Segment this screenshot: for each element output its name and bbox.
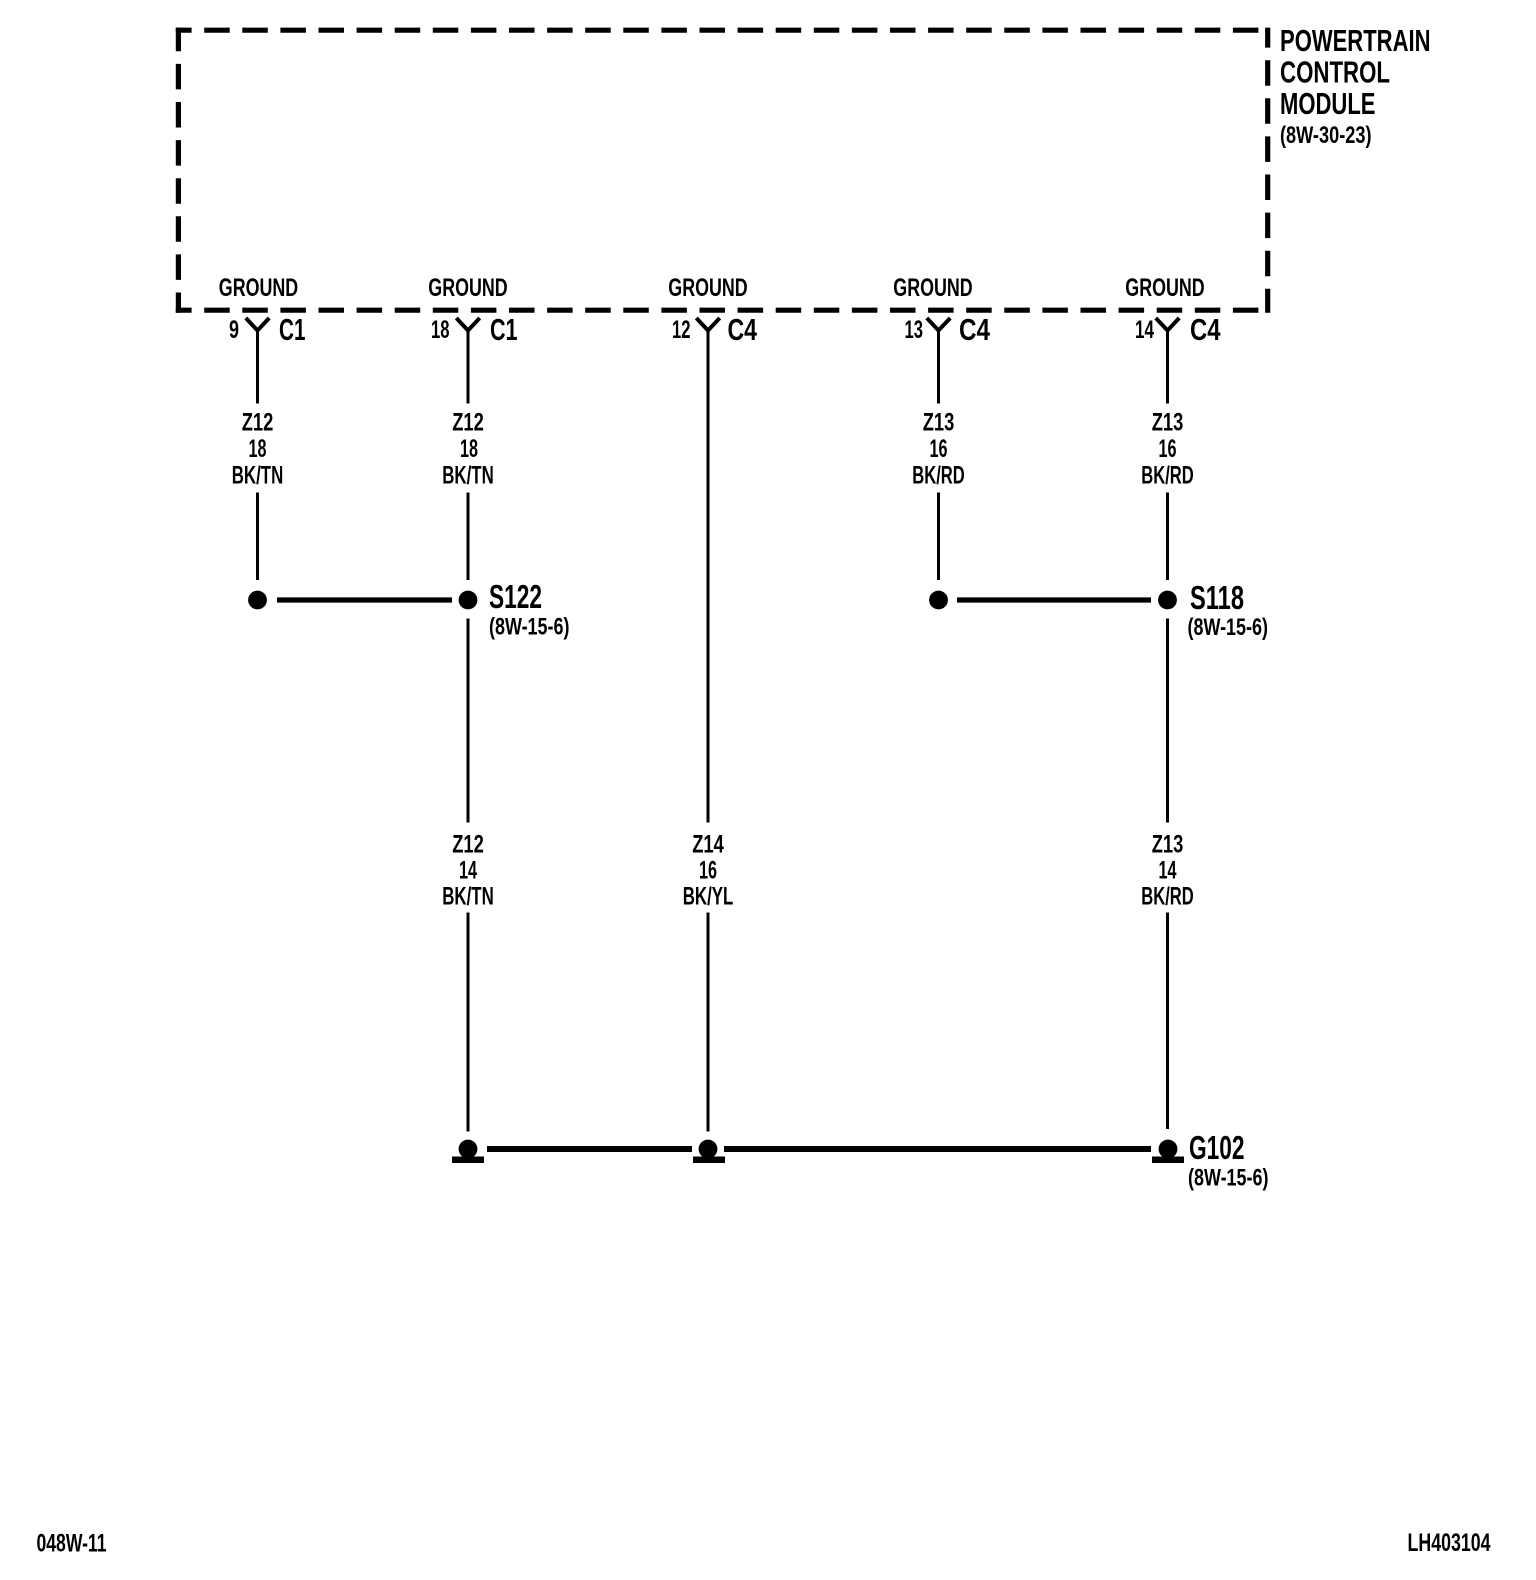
connector pin 12 C4 bbox=[672, 312, 758, 347]
svg-text:GROUND: GROUND bbox=[428, 274, 507, 302]
svg-text:12: 12 bbox=[672, 316, 691, 344]
connector pin 13 C4 bbox=[905, 312, 991, 347]
svg-text:14: 14 bbox=[1159, 857, 1177, 885]
svg-text:BK/RD: BK/RD bbox=[912, 462, 965, 490]
svg-text:BK/TN: BK/TN bbox=[442, 462, 494, 490]
wire label Z13 16 BK/RD (wire 4) bbox=[912, 409, 965, 490]
svg-text:14: 14 bbox=[459, 857, 477, 885]
wire 2 lower segment to ground bbox=[467, 913, 470, 1132]
svg-text:LH403104: LH403104 bbox=[1408, 1529, 1491, 1557]
svg-text:16: 16 bbox=[1159, 435, 1177, 463]
wire label Z13 16 BK/RD (wire 5) bbox=[1141, 409, 1194, 490]
PCM module dashed box bottom edge bbox=[176, 308, 1271, 313]
splice S122 horizontal wire bbox=[277, 597, 452, 602]
svg-text:(8W-15-6): (8W-15-6) bbox=[489, 614, 570, 641]
svg-text:(8W-30-23): (8W-30-23) bbox=[1280, 122, 1372, 149]
svg-text:C4: C4 bbox=[728, 312, 758, 347]
splice S122 right junction dot bbox=[459, 591, 478, 610]
wire pin18 lower segment to splice bbox=[467, 493, 470, 581]
connector pin 18 C1 bbox=[431, 312, 518, 347]
svg-text:Z13: Z13 bbox=[923, 409, 955, 437]
wire pin9 upper segment bbox=[256, 329, 259, 404]
svg-text:048W-11: 048W-11 bbox=[37, 1530, 107, 1558]
PCM module dashed box left edge bbox=[176, 28, 181, 313]
wire pin14 lower segment to splice bbox=[1166, 493, 1169, 581]
splice S118 horizontal wire bbox=[957, 597, 1151, 602]
svg-text:GROUND: GROUND bbox=[668, 274, 747, 302]
PCM label POWERTRAIN CONTROL MODULE (8W-30-23) bbox=[1280, 23, 1431, 149]
wire 3 lower segment to ground bbox=[707, 913, 710, 1132]
svg-text:MODULE: MODULE bbox=[1280, 86, 1376, 121]
wire below S122 to lower label bbox=[467, 619, 470, 823]
svg-text:13: 13 bbox=[905, 316, 924, 344]
svg-text:Z13: Z13 bbox=[1152, 409, 1184, 437]
svg-text:CONTROL: CONTROL bbox=[1280, 55, 1390, 90]
svg-text:C4: C4 bbox=[1190, 312, 1221, 347]
splice S118 right junction dot bbox=[1158, 591, 1177, 610]
ground terminal bar G102 bbox=[1152, 1157, 1184, 1164]
wire below S118 to lower label bbox=[1166, 619, 1169, 823]
svg-text:GROUND: GROUND bbox=[893, 274, 972, 302]
svg-text:16: 16 bbox=[930, 435, 948, 463]
svg-text:GROUND: GROUND bbox=[1125, 274, 1204, 302]
svg-text:BK/TN: BK/TN bbox=[232, 462, 284, 490]
wire pin12 long segment bbox=[707, 329, 710, 823]
PCM module dashed box right edge bbox=[1265, 28, 1270, 313]
splice S122 left junction dot bbox=[248, 591, 267, 610]
svg-text:BK/YL: BK/YL bbox=[683, 883, 734, 911]
svg-text:G102: G102 bbox=[1189, 1129, 1245, 1166]
wire label Z12 18 BK/TN (wire 1) bbox=[232, 409, 284, 490]
svg-text:Z12: Z12 bbox=[452, 831, 484, 859]
svg-text:S118: S118 bbox=[1190, 579, 1244, 616]
ground terminal bar wire 3 bbox=[693, 1157, 725, 1164]
svg-text:C1: C1 bbox=[279, 312, 306, 347]
ground junction dot wire 2 bbox=[459, 1140, 478, 1159]
wire label Z12 14 BK/TN (lower wire 2) bbox=[442, 831, 494, 911]
PCM module dashed box top edge bbox=[176, 28, 1271, 33]
ground junction dot wire 3 bbox=[699, 1140, 718, 1159]
wire pin18 upper segment bbox=[467, 329, 470, 404]
splice S118 label bbox=[1188, 579, 1269, 641]
svg-text:C4: C4 bbox=[959, 312, 991, 347]
svg-text:14: 14 bbox=[1135, 316, 1154, 344]
splice S122 label bbox=[489, 578, 570, 641]
svg-text:S122: S122 bbox=[489, 578, 542, 615]
svg-text:Z12: Z12 bbox=[452, 409, 484, 437]
ground G102 label bbox=[1188, 1129, 1269, 1192]
ground bus wire left segment bbox=[487, 1146, 692, 1152]
svg-text:18: 18 bbox=[431, 316, 450, 344]
ground terminal bar wire 2 bbox=[452, 1157, 484, 1164]
svg-text:9: 9 bbox=[229, 316, 239, 344]
svg-text:BK/RD: BK/RD bbox=[1141, 883, 1194, 911]
svg-text:18: 18 bbox=[460, 435, 478, 463]
wire label Z13 14 BK/RD (lower wire 5) bbox=[1141, 831, 1194, 911]
wire label Z14 16 BK/YL (lower wire 3) bbox=[683, 831, 734, 911]
wire pin13 lower segment to splice bbox=[937, 493, 940, 581]
wire pin13 upper segment bbox=[937, 329, 940, 404]
svg-text:BK/RD: BK/RD bbox=[1141, 462, 1194, 490]
svg-text:Z12: Z12 bbox=[242, 409, 274, 437]
ground junction dot G102 bbox=[1159, 1140, 1178, 1159]
splice S118 left junction dot bbox=[929, 591, 948, 610]
wire label Z12 18 BK/TN (wire 2) bbox=[442, 409, 494, 490]
ground bus wire right segment bbox=[724, 1146, 1151, 1152]
svg-text:POWERTRAIN: POWERTRAIN bbox=[1280, 23, 1431, 58]
wire 5 lower segment to ground bbox=[1166, 913, 1169, 1130]
wire pin14 upper segment bbox=[1166, 329, 1169, 404]
svg-text:(8W-15-6): (8W-15-6) bbox=[1188, 614, 1269, 641]
svg-text:16: 16 bbox=[699, 857, 717, 885]
connector pin 9 C1 bbox=[229, 312, 306, 347]
svg-text:GROUND: GROUND bbox=[219, 274, 298, 302]
svg-text:(8W-15-6): (8W-15-6) bbox=[1188, 1165, 1269, 1192]
svg-text:C1: C1 bbox=[490, 312, 518, 347]
svg-text:18: 18 bbox=[249, 435, 267, 463]
connector pin 14 C4 bbox=[1135, 312, 1221, 347]
wire pin9 lower segment to splice bbox=[256, 493, 259, 581]
svg-text:BK/TN: BK/TN bbox=[442, 883, 494, 911]
svg-text:Z14: Z14 bbox=[692, 831, 724, 859]
svg-text:Z13: Z13 bbox=[1152, 831, 1184, 859]
